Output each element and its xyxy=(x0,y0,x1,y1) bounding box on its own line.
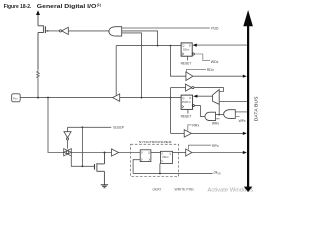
pad Pxn xyxy=(12,94,21,102)
ground xyxy=(101,185,108,188)
synchronizer dashed box xyxy=(131,144,179,176)
svg-text:clkI/O: clkI/O xyxy=(153,188,162,192)
svg-text:(1): (1) xyxy=(97,3,101,7)
svg-text:RDx: RDx xyxy=(207,68,214,72)
svg-text:Q: Q xyxy=(182,43,185,47)
svg-text:PUD: PUD xyxy=(211,27,219,31)
pin clock bubble PORTxn xyxy=(192,105,194,107)
latch L1 xyxy=(140,150,151,162)
wire PORTxn readback vertical xyxy=(170,88,172,134)
svg-text:SYNCHRONIZER: SYNCHRONIZER xyxy=(139,140,173,144)
wire RPx enable xyxy=(188,145,211,149)
inverter PORTxn toggle xyxy=(186,84,192,91)
wire DDxn Q xyxy=(116,45,181,47)
node junction select/or xyxy=(218,114,220,116)
wire WRx stub xyxy=(216,118,220,120)
buffer RRx xyxy=(184,130,191,137)
wire mux output to PORTxn D xyxy=(197,95,213,97)
wire PUD net xyxy=(122,27,210,29)
svg-text:DATA BUS: DATA BUS xyxy=(254,96,260,121)
wire clk I/O rail xyxy=(133,172,212,174)
svg-text:WRITE PINx: WRITE PINx xyxy=(175,188,195,192)
node junction PORTxn Q / AND xyxy=(141,97,143,99)
title Figure 18-2 General Digital I/O xyxy=(4,3,101,10)
wire DDxn Q to RDx buffer xyxy=(171,46,186,77)
wire inverter input xyxy=(68,30,109,32)
buffer RPx xyxy=(186,149,192,156)
svg-text:RPx: RPx xyxy=(212,144,219,148)
wire RRx feed xyxy=(171,132,185,134)
wire schmitt to synchronizer xyxy=(119,152,141,154)
AND gate WPx xyxy=(224,110,236,119)
resistor Rpu xyxy=(37,69,40,79)
wire AND bottom input from PORTxn Q xyxy=(122,33,142,98)
DATA BUS bottom arrow xyxy=(244,187,253,192)
wire RDx to bus xyxy=(193,75,243,77)
wire RESET stub DDxn xyxy=(187,56,189,60)
wire L1 clock xyxy=(133,160,140,174)
svg-text:Q: Q xyxy=(169,153,171,156)
node junction PORTxn Q / readback xyxy=(170,97,172,99)
wire RRx enable xyxy=(188,125,192,131)
wire PORTxn clock xyxy=(194,106,205,117)
wire pin line xyxy=(20,97,112,99)
svg-text:WPx: WPx xyxy=(239,119,246,123)
buffer schmitt trigger xyxy=(112,149,119,156)
svg-text:PORTxn: PORTxn xyxy=(182,102,191,104)
svg-text:D: D xyxy=(189,96,191,100)
inverter (pull-up control) xyxy=(59,30,61,32)
mux WPx select xyxy=(213,90,220,105)
wire pin input line right of gate xyxy=(71,152,111,154)
wire mux input from bus xyxy=(219,101,247,103)
register PINxn xyxy=(161,151,173,163)
wire WPx gate top input from bus xyxy=(235,111,247,113)
node junction DDxn Q / RDx xyxy=(170,45,172,47)
node junction SLEEP xyxy=(82,126,84,128)
node junction input branch xyxy=(47,97,49,99)
svg-text:D: D xyxy=(141,151,143,154)
wire PORTxn Q xyxy=(120,97,181,99)
wire AND middle input from DDxn Q xyxy=(122,31,158,46)
svg-text:General Digital I/O: General Digital I/O xyxy=(37,4,97,10)
wire mux select xyxy=(218,104,220,114)
svg-text:Q: Q xyxy=(148,151,150,154)
wire WPx stub xyxy=(235,116,239,118)
wire RPx to bus xyxy=(192,152,243,154)
flip-flop DDxn xyxy=(181,43,192,56)
inverter SLEEP xyxy=(67,127,69,131)
wire PINxn clock stub xyxy=(159,164,161,174)
buffer RDx xyxy=(186,72,193,81)
node junction pull-up / pin xyxy=(37,97,39,99)
pin D input arrow DDxn xyxy=(196,44,247,46)
svg-text:Q: Q xyxy=(182,96,185,100)
wire WDx xyxy=(194,54,210,61)
node junction sleep/gate xyxy=(82,165,84,167)
wire RRx to bus xyxy=(191,132,243,134)
transistor pull-up pMOS xyxy=(38,25,45,69)
node junction DDxn Q / AND xyxy=(157,45,159,47)
OR gate clock WRx/WPx xyxy=(205,112,216,120)
svg-text:RESET: RESET xyxy=(181,61,192,65)
pin clock bubble DDxn xyxy=(192,53,194,55)
wire SLEEP net xyxy=(68,126,112,128)
transmission gate xyxy=(64,149,72,156)
wire transmission gate bottom control xyxy=(71,156,94,166)
wire RESET stub PORTxn xyxy=(187,109,189,113)
svg-text:Figure 18-2.: Figure 18-2. xyxy=(4,4,32,10)
VCC arrow xyxy=(37,14,39,26)
DATA BUS top arrow xyxy=(243,10,253,26)
wire PORTxn Q to inverter xyxy=(171,87,186,89)
svg-text:RESET: RESET xyxy=(181,115,192,119)
svg-text:WRx: WRx xyxy=(212,121,219,125)
svg-text:I/O: I/O xyxy=(218,174,221,176)
wire inverter to mux xyxy=(194,88,224,92)
wire SLEEP to clamp gate xyxy=(81,127,83,166)
AND gate U1 pull-up enable xyxy=(109,27,122,36)
wire WPx gate output xyxy=(219,114,223,116)
wire OR top input xyxy=(216,114,220,116)
node junction clk / PINxn xyxy=(159,172,161,174)
node junction clamp drain xyxy=(104,152,106,154)
wire RDx enable xyxy=(186,69,206,71)
svg-text:Pxn: Pxn xyxy=(13,96,18,100)
DATA BUS line xyxy=(247,26,249,188)
buffer output driver xyxy=(113,94,120,101)
svg-text:PINxn: PINxn xyxy=(162,157,169,159)
svg-text:WDx: WDx xyxy=(211,60,219,64)
wire pMOS gate xyxy=(46,30,59,32)
svg-text:SLEEP: SLEEP xyxy=(113,126,124,130)
transistor clamp nMOS xyxy=(95,153,105,185)
wire input branch down xyxy=(48,98,64,153)
svg-text:D: D xyxy=(162,153,164,156)
flip-flop PORTxn xyxy=(181,95,193,109)
wire PINxn output xyxy=(173,152,186,154)
wire driver enable xyxy=(115,46,117,96)
svg-text:D: D xyxy=(189,43,191,47)
svg-text:DDxn: DDxn xyxy=(183,49,190,52)
svg-text:RRx: RRx xyxy=(192,124,199,128)
wire L1 to PINxn xyxy=(151,152,161,154)
